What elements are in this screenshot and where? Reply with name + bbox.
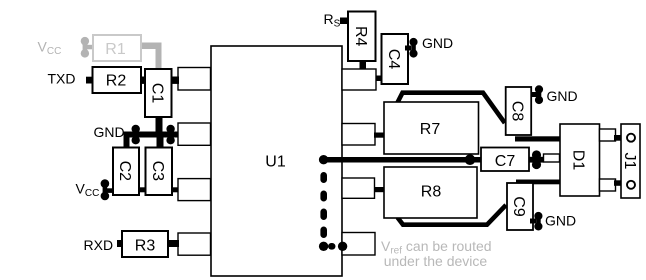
svg-text:RXD: RXD (84, 237, 114, 253)
svg-text:R1: R1 (105, 41, 126, 58)
svg-text:GND: GND (94, 124, 125, 140)
svg-text:C2: C2 (116, 161, 133, 182)
svg-text:D1: D1 (570, 150, 587, 171)
svg-text:GND: GND (422, 35, 453, 51)
svg-text:U1: U1 (265, 153, 286, 170)
svg-text:J1: J1 (621, 153, 638, 170)
svg-text:GND: GND (547, 88, 578, 104)
svg-text:C8: C8 (509, 101, 526, 122)
svg-text:TXD: TXD (48, 71, 76, 87)
svg-text:C1: C1 (148, 83, 165, 104)
svg-text:R4: R4 (352, 26, 369, 47)
svg-text:GND: GND (545, 213, 576, 229)
svg-text:R7: R7 (420, 121, 441, 138)
svg-text:R2: R2 (106, 72, 127, 89)
svg-text:C9: C9 (510, 196, 527, 217)
svg-text:under the device: under the device (384, 253, 488, 269)
svg-text:R3: R3 (135, 238, 156, 255)
svg-text:R8: R8 (421, 184, 442, 201)
svg-text:C3: C3 (149, 161, 166, 182)
svg-text:C7: C7 (495, 153, 516, 170)
svg-text:C4: C4 (385, 49, 402, 70)
